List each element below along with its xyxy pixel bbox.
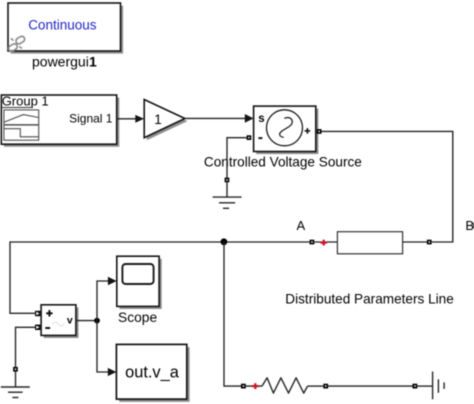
distributed parameters line block	[337, 232, 402, 254]
scope block	[117, 256, 162, 309]
svg-text:Continuous: Continuous	[28, 18, 97, 33]
signal builder block Group 1	[1, 93, 119, 147]
gain block 1	[144, 100, 187, 141]
wire junction to out block	[97, 321, 116, 377]
svg-text:Signal 1: Signal 1	[69, 112, 113, 126]
svg-text:s: s	[258, 113, 264, 125]
wire port to line block	[314, 241, 337, 243]
svg-text:v: v	[67, 315, 73, 327]
wire node A down to voltage measurement plus	[10, 241, 35, 313]
out.v_a block	[116, 344, 189, 402]
resistor R1 zigzag	[262, 378, 308, 393]
wire series branch to terminator	[328, 385, 412, 387]
node B label	[465, 218, 474, 233]
wire VM minus to ground G2	[16, 327, 36, 367]
broken library link icon	[7, 35, 25, 52]
wire U2 minus to ground G1	[227, 138, 247, 178]
svg-text:Group 1: Group 1	[2, 93, 49, 108]
port arrow plus of voltage measurement	[35, 311, 40, 316]
controlled voltage source U2	[254, 106, 319, 154]
red polarity plus at series branch	[252, 383, 259, 389]
label Controlled Voltage Source	[204, 154, 362, 169]
label Distributed Parameters Line	[285, 291, 454, 306]
port square plus of U2	[317, 129, 322, 134]
wire junction to scope	[97, 277, 117, 321]
junction dot VM output	[94, 318, 100, 324]
port square left of line block	[310, 240, 315, 245]
signal builder icon	[4, 110, 39, 140]
wire VM output to junction	[76, 320, 97, 322]
junction node dot	[221, 238, 228, 245]
ground G3 rotated	[433, 372, 445, 400]
port square of ground G3	[413, 384, 418, 389]
wire line block to right port	[403, 241, 427, 243]
port square left of series RLC branch	[241, 384, 246, 389]
svg-text:Scope: Scope	[118, 310, 157, 325]
port arrow minus of voltage measurement	[35, 325, 40, 330]
wire gain to controlled voltage source	[185, 114, 254, 123]
port square of ground G1	[225, 178, 230, 183]
wire main node A horizontal	[10, 241, 310, 243]
wire to ground G3	[417, 385, 432, 387]
wire signal builder to gain	[117, 115, 144, 123]
port square right of series RLC branch	[323, 384, 328, 389]
label Scope	[118, 310, 157, 325]
wire resistor to port	[308, 385, 324, 387]
svg-text:1: 1	[89, 53, 97, 69]
svg-text:B: B	[465, 218, 474, 233]
wire to resistor	[246, 385, 262, 387]
svg-text:Distributed Parameters Line: Distributed Parameters Line	[285, 291, 454, 306]
port square minus of U2	[247, 135, 252, 140]
voltage measurement block VM	[41, 305, 78, 338]
node A label	[297, 218, 306, 233]
port square of ground G2	[13, 367, 18, 372]
ground G1	[213, 182, 242, 208]
svg-text:out.v_a: out.v_a	[125, 364, 180, 382]
wire U2 plus to node B	[322, 131, 453, 242]
svg-text:powergui: powergui	[32, 53, 89, 69]
powergui block U1	[8, 3, 123, 54]
port square right of line block	[427, 240, 432, 245]
red polarity plus at node A	[320, 240, 327, 246]
label powergui1	[32, 53, 97, 69]
wire junction down to series branch	[224, 242, 241, 386]
svg-text:A: A	[297, 218, 306, 233]
ground G2	[1, 372, 30, 398]
svg-text:1: 1	[154, 112, 162, 127]
